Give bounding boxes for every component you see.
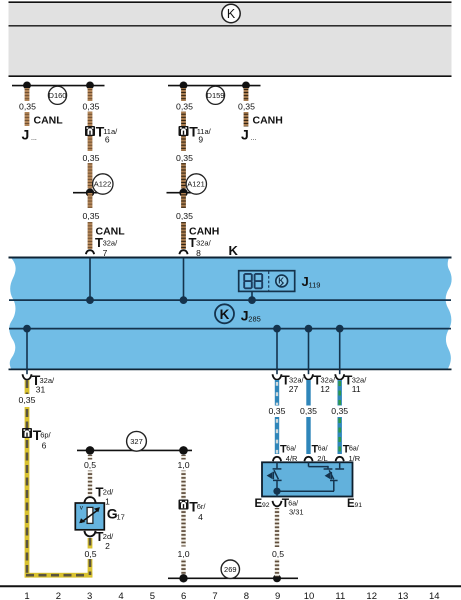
wire col10 blue lower — [306, 417, 310, 454]
wire col10 blue upper — [306, 380, 310, 406]
terminal T32a/11 — [335, 373, 367, 395]
svg-text:0,35: 0,35 — [331, 406, 348, 416]
J119 stub to rail — [251, 291, 253, 300]
component J... (CAN low control unit) — [22, 127, 37, 143]
label J285 — [241, 308, 261, 324]
junction dot col3 — [86, 446, 95, 455]
svg-text:6a/: 6a/ — [286, 445, 296, 452]
svg-text:7: 7 — [103, 248, 108, 258]
wire CANH stub to J... — [244, 88, 249, 127]
svg-text:0,35: 0,35 — [83, 153, 100, 163]
junction dot CANH stub — [242, 82, 250, 90]
svg-text:J: J — [241, 127, 249, 143]
svg-text:6: 6 — [42, 440, 47, 450]
terminal T32a/7 — [86, 235, 118, 258]
wire col1 yellow long segment — [25, 438, 30, 578]
svg-text:3: 3 — [87, 591, 92, 600]
svg-text:12: 12 — [320, 384, 330, 394]
component K blue band (instrument cluster bus) — [9, 258, 451, 369]
label E92 — [255, 498, 270, 510]
rail dot col11 — [336, 325, 344, 333]
connection D159 — [206, 86, 224, 104]
band bottom border — [9, 368, 452, 370]
svg-text:11: 11 — [352, 384, 361, 394]
svg-text:CANH: CANH — [253, 115, 283, 127]
svg-text:9: 9 — [275, 591, 280, 600]
svg-text:K: K — [227, 7, 236, 21]
header K circle — [222, 4, 240, 22]
terminal T6a/2/L — [304, 443, 327, 462]
wire col11 blue-green lower — [338, 417, 342, 454]
rail dot col10 — [305, 325, 313, 333]
svg-text:31: 31 — [36, 385, 46, 395]
svg-text:0,35: 0,35 — [176, 153, 193, 163]
connection A122 — [73, 174, 113, 197]
svg-text:0,35: 0,35 — [83, 102, 100, 112]
svg-text:32a/: 32a/ — [196, 239, 212, 248]
svg-text:6: 6 — [181, 591, 186, 600]
svg-text:92: 92 — [262, 502, 270, 509]
connector T11a/6 — [85, 123, 118, 144]
svg-text:...: ... — [251, 135, 257, 142]
ground connection 269 circle — [221, 560, 239, 578]
svg-text:4: 4 — [198, 512, 203, 522]
terminal T32a/27 — [273, 373, 305, 395]
ground line 269 — [168, 577, 298, 579]
rail dot col1 — [23, 325, 31, 333]
svg-text:6p/: 6p/ — [40, 431, 51, 440]
svg-text:J: J — [22, 127, 30, 143]
svg-text:A121: A121 — [187, 180, 205, 189]
svg-text:6r/: 6r/ — [197, 502, 207, 511]
svg-text:6a/: 6a/ — [349, 445, 359, 452]
terminal T32a/12 — [304, 373, 336, 395]
svg-text:327: 327 — [130, 437, 143, 446]
J119 rail — [9, 299, 451, 301]
svg-text:14: 14 — [429, 591, 440, 600]
wire col3 below connector — [88, 136, 93, 189]
svg-text:0,5: 0,5 — [84, 460, 96, 470]
svg-text:119: 119 — [309, 280, 321, 289]
svg-text:10: 10 — [304, 591, 315, 600]
svg-text:4: 4 — [118, 591, 123, 600]
svg-text:32a/: 32a/ — [289, 375, 305, 384]
connection 327 line — [77, 449, 192, 451]
connection 327 circle — [127, 431, 147, 451]
svg-text:13: 13 — [398, 591, 409, 600]
svg-text:...: ... — [31, 135, 37, 142]
terminal T2d/1 — [84, 485, 114, 507]
svg-text:9: 9 — [198, 135, 203, 145]
svg-text:0,35: 0,35 — [300, 406, 317, 416]
svg-text:2: 2 — [105, 541, 110, 551]
wire col9 blue-white lower — [275, 417, 279, 454]
header band top border — [9, 1, 452, 3]
rail dot col6 — [180, 296, 188, 304]
svg-text:0,35: 0,35 — [176, 102, 193, 112]
svg-text:1: 1 — [105, 497, 110, 507]
wire inside band col3 — [89, 258, 91, 300]
label G17 — [107, 505, 125, 521]
wire col3 white-brown above G17 — [88, 455, 92, 496]
svg-text:32a/: 32a/ — [103, 239, 119, 248]
svg-text:11: 11 — [335, 591, 345, 600]
svg-text:12: 12 — [366, 591, 377, 600]
svg-text:285: 285 — [248, 315, 261, 324]
junction dot col6 — [179, 446, 188, 455]
connection D160 — [48, 86, 66, 104]
svg-text:2d/: 2d/ — [103, 532, 114, 541]
wire col6 upper segment — [181, 88, 186, 126]
terminal T6a/4/R — [273, 443, 298, 462]
wire inside band col10 — [308, 329, 310, 375]
wire inside band col6 — [183, 258, 185, 300]
label E91 — [347, 498, 362, 510]
J285 rail — [9, 328, 451, 330]
ground dot col6 — [179, 574, 187, 582]
connection A121 — [167, 174, 207, 197]
switch E91 right — [309, 462, 345, 491]
svg-text:0,35: 0,35 — [19, 102, 36, 112]
svg-text:5: 5 — [150, 591, 155, 600]
svg-text:8: 8 — [244, 591, 249, 600]
wire col6 lower segment — [181, 193, 186, 249]
svg-text:0,35: 0,35 — [269, 406, 286, 416]
svg-text:0,5: 0,5 — [84, 549, 96, 559]
ground dot col9 — [273, 574, 281, 582]
svg-text:6: 6 — [105, 135, 110, 145]
header divider line — [9, 25, 452, 27]
wire inside band col1 — [26, 329, 28, 375]
terminal T6a/1/R — [336, 443, 361, 462]
switch E92 left — [267, 462, 282, 491]
svg-text:CANL: CANL — [34, 115, 64, 127]
connector T11a/9 — [179, 123, 212, 144]
junction dot col1 — [23, 82, 31, 90]
connector T6r/4 — [179, 499, 207, 522]
svg-text:D160: D160 — [49, 91, 67, 100]
terminal T2d/2 — [84, 529, 114, 551]
svg-text:91: 91 — [355, 502, 363, 509]
wire col6 below connector — [181, 136, 186, 189]
wire col3 lower segment — [88, 193, 93, 249]
wire yellow bottom horizontal — [25, 573, 93, 578]
svg-text:0,35: 0,35 — [238, 102, 255, 112]
svg-text:1,0: 1,0 — [177, 460, 189, 470]
svg-text:0,35: 0,35 — [83, 211, 100, 221]
svg-text:1,0: 1,0 — [177, 549, 189, 559]
rail dot col9 — [273, 325, 281, 333]
terminal T32a/8 — [179, 235, 211, 258]
svg-text:32a/: 32a/ — [321, 375, 337, 384]
rail dot J119 — [248, 296, 256, 304]
rail dot col3 — [86, 296, 94, 304]
wire col6 white-brown upper — [181, 455, 185, 500]
svg-text:K: K — [229, 243, 239, 258]
junction dot col3 — [86, 82, 94, 90]
bottom scale line — [0, 585, 461, 587]
label J119 — [302, 274, 321, 289]
wire col6 white-brown lower — [181, 510, 185, 577]
header gray strip 1 — [9, 3, 452, 25]
component J... (CAN high control unit) — [241, 127, 256, 143]
data bus connection J285 — [215, 304, 234, 323]
terminal T6a/3/31 — [273, 496, 304, 517]
svg-text:17: 17 — [117, 513, 125, 522]
svg-text:K: K — [220, 307, 230, 322]
svg-text:32a/: 32a/ — [352, 375, 368, 384]
wire col9 white-brown below box — [275, 508, 279, 577]
junction dot col6 — [180, 82, 188, 90]
left junction wire — [12, 85, 105, 87]
wire inside band col11 — [339, 329, 341, 375]
wire col1 yellow segment 1 — [25, 380, 30, 394]
svg-text:2: 2 — [56, 591, 61, 600]
svg-text:0,35: 0,35 — [19, 395, 36, 405]
header bottom border — [9, 75, 452, 77]
wire inside band col9 — [276, 329, 278, 375]
sensor G17 — [75, 503, 104, 530]
wire col9 blue-white upper — [275, 380, 279, 406]
svg-text:6a/: 6a/ — [318, 445, 328, 452]
wire CANL stub to J... — [25, 88, 30, 126]
switch E92/E91 common rail — [273, 488, 280, 495]
band top border — [9, 257, 452, 259]
svg-text:8: 8 — [196, 248, 201, 258]
wire col11 blue-green upper — [338, 380, 342, 406]
connector T6p/6 — [22, 427, 52, 450]
wire yellow below G17 — [88, 538, 93, 549]
header gray strip 2 — [9, 27, 452, 76]
wire col3 upper segment — [88, 88, 93, 126]
svg-text:0,35: 0,35 — [176, 211, 193, 221]
terminal T32a/31 — [23, 372, 56, 394]
svg-text:0,5: 0,5 — [272, 549, 284, 559]
svg-text:1: 1 — [24, 591, 29, 600]
wire yellow right riser — [88, 559, 93, 578]
svg-text:27: 27 — [289, 384, 299, 394]
svg-text:D159: D159 — [207, 91, 225, 100]
svg-text:7: 7 — [212, 591, 217, 600]
switch unit E92/E91 box — [262, 462, 353, 496]
svg-text:A122: A122 — [94, 180, 112, 189]
display unit J119 — [239, 271, 295, 292]
right junction wire — [168, 85, 261, 87]
wire col1 yellow segment 2 — [25, 407, 30, 428]
svg-text:2d/: 2d/ — [103, 487, 114, 496]
svg-text:3/31: 3/31 — [289, 507, 304, 516]
svg-text:269: 269 — [224, 565, 237, 574]
